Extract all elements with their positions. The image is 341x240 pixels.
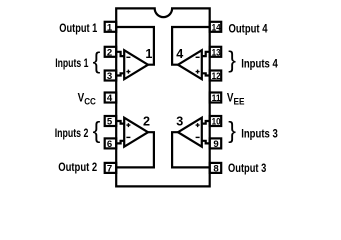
svg-text:4: 4 <box>176 47 183 61</box>
svg-text:12: 12 <box>212 71 221 82</box>
svg-text:13: 13 <box>212 47 221 58</box>
svg-text:Inputs 1: Inputs 1 <box>55 56 88 70</box>
pin 10 box <box>210 116 222 126</box>
pin 6 box <box>105 138 117 148</box>
svg-text:2: 2 <box>107 47 112 58</box>
svg-text:3: 3 <box>176 115 183 129</box>
A2 minus sign <box>126 136 130 138</box>
pin 7 box <box>105 163 117 173</box>
pin 11 box <box>210 93 222 103</box>
svg-text:2: 2 <box>143 115 150 129</box>
svg-text:Output 1: Output 1 <box>59 21 97 35</box>
svg-text:11: 11 <box>212 93 222 104</box>
wire A3 output to pin 8 <box>172 132 210 167</box>
wire pin 10 to A3 non-inverting input <box>202 121 210 124</box>
wire pin 3 to A1 non-inverting input <box>116 73 124 75</box>
op-amp A4 triangle <box>178 50 202 79</box>
A3 minus sign <box>196 136 200 138</box>
wire pin 5 to A2 non-inverting input <box>116 121 124 124</box>
svg-text:3: 3 <box>107 71 112 82</box>
svg-text:7: 7 <box>107 163 112 174</box>
A2 plus sign <box>126 123 130 127</box>
svg-text:6: 6 <box>107 139 112 150</box>
svg-text:Inputs 2: Inputs 2 <box>55 126 89 140</box>
svg-text:{: { <box>93 117 101 143</box>
pin 13 box <box>210 47 222 57</box>
wire pin 2 to A1 inverting input <box>116 52 124 56</box>
svg-text:CC: CC <box>84 96 96 107</box>
svg-text:V: V <box>227 90 234 104</box>
pin 1 box <box>105 22 117 32</box>
op-amp A1 triangle <box>124 50 148 79</box>
svg-text:1: 1 <box>107 22 113 33</box>
wire pin 13 to A4 inverting input <box>202 52 210 56</box>
wire pin 6 to A2 inverting input <box>116 141 124 144</box>
A4 minus sign <box>196 56 200 58</box>
svg-text:8: 8 <box>213 163 219 174</box>
svg-text:Output 2: Output 2 <box>58 160 97 174</box>
pin 9 box <box>210 138 222 148</box>
svg-text:Inputs 3: Inputs 3 <box>241 127 278 141</box>
pin 4 box <box>105 93 117 103</box>
svg-text:}: } <box>228 117 236 143</box>
wire A1 output to pin 1 <box>116 27 154 65</box>
pin 5 box <box>105 116 117 126</box>
svg-text:Output 3: Output 3 <box>228 161 267 175</box>
pin 14 box <box>210 22 222 32</box>
svg-text:{: { <box>93 48 101 74</box>
IC U1 body outline with pin-1 notch <box>116 8 210 186</box>
wire A2 output to pin 7 <box>116 132 154 167</box>
svg-text:1: 1 <box>145 47 152 61</box>
A4 plus sign <box>196 70 200 74</box>
A3 plus sign <box>196 123 200 127</box>
svg-text:9: 9 <box>213 139 218 150</box>
wire A4 output to pin 14 <box>172 27 210 65</box>
svg-text:Output 4: Output 4 <box>229 21 268 35</box>
svg-text:10: 10 <box>212 117 221 128</box>
wire pin 12 to A4 non-inverting input <box>202 73 210 75</box>
svg-text:EE: EE <box>234 96 245 107</box>
svg-text:14: 14 <box>212 22 222 33</box>
pin 8 box <box>210 163 222 173</box>
pin 12 box <box>210 71 222 81</box>
svg-text:}: } <box>228 47 236 73</box>
A1 minus sign <box>126 56 130 58</box>
svg-text:4: 4 <box>107 93 113 104</box>
svg-text:Inputs 4: Inputs 4 <box>241 57 278 71</box>
pin 2 box <box>105 47 117 57</box>
pin 3 box <box>105 71 117 81</box>
svg-text:5: 5 <box>107 117 113 128</box>
op-amp A3 triangle <box>178 118 202 147</box>
op-amp A2 triangle <box>124 118 148 147</box>
wire pin 9 to A3 inverting input <box>202 141 210 144</box>
A1 plus sign <box>126 70 130 74</box>
